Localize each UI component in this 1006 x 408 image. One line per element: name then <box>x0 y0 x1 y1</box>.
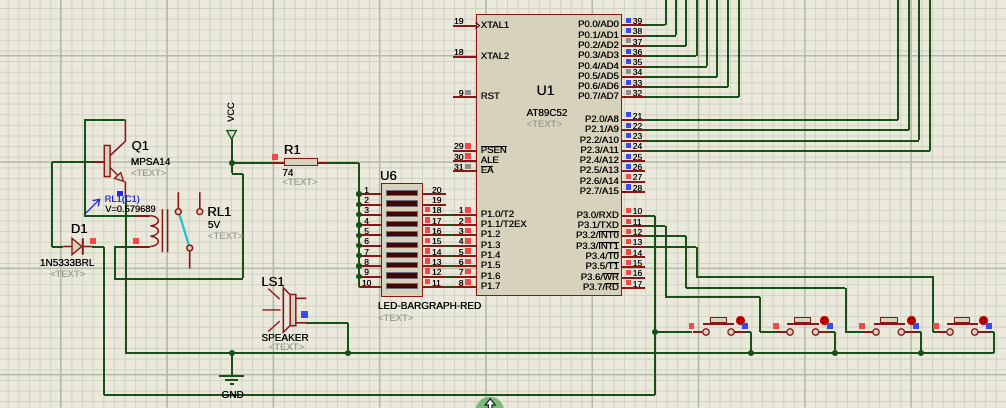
voltage probe arrow <box>80 193 105 219</box>
U1 pin 13 <box>622 246 645 248</box>
U6 left pin 1 <box>359 193 382 195</box>
junction dot U6 pin 9 <box>356 274 361 279</box>
U1 pin 32 <box>622 96 645 98</box>
U6 LED segment bar 10 <box>386 283 418 289</box>
wire net P0.3 <box>645 55 696 57</box>
wire: left loop vertical <box>84 120 86 216</box>
U6 right pin 16 <box>423 234 446 236</box>
wire: relay-right vertical to VCC <box>242 174 244 279</box>
button B4 feed wire <box>933 331 937 333</box>
U6 left pin 10 <box>359 286 382 288</box>
RL1 coil bottom pin <box>136 246 151 248</box>
U1 pin 27 <box>622 181 645 183</box>
junction dot U6 pin 6 <box>356 243 361 248</box>
R1 pin state square <box>272 154 278 160</box>
U1 pin 30 (ALE) <box>453 160 476 162</box>
R1 right pin <box>318 162 329 164</box>
D1 cathode state square <box>90 238 96 244</box>
U1 pin 39 <box>622 24 645 26</box>
U6 left pin 5 <box>359 234 382 236</box>
wire: ground bus horizontal <box>125 352 993 354</box>
U6 right pin 15 <box>423 245 446 247</box>
wire net P2.3 <box>645 150 930 152</box>
U6 left pin 9 <box>359 276 382 278</box>
LS1 state square <box>301 311 308 318</box>
wire net P2.0 <box>645 119 898 121</box>
button B3 output wire <box>917 331 921 333</box>
GND label <box>221 390 243 401</box>
wire net P3.0 to button 1 <box>645 215 655 217</box>
U6 left pin 6 <box>359 245 382 247</box>
U1 pin 35 <box>622 66 645 68</box>
junction dot button B1 output <box>748 350 754 356</box>
U6 reference label <box>380 168 397 183</box>
U6 LED segment bar 4 <box>386 221 418 227</box>
Q1 value label MPSA14 <box>131 157 170 168</box>
wire net P0.6 <box>645 86 728 88</box>
speaker LS1 symbol <box>258 283 310 337</box>
wire net P2.2 <box>645 140 919 142</box>
U1 pin 18 (XTAL2) <box>453 56 476 58</box>
U1 pin 11 <box>622 225 645 227</box>
U1 pin 33 <box>622 86 645 88</box>
R1 reference label <box>284 142 301 157</box>
wire: VCC jog vertical <box>231 163 233 174</box>
U1 pin 15 <box>622 266 645 268</box>
button B4 symbol <box>937 331 947 333</box>
power symbol VCC <box>224 128 240 141</box>
U1 pin 29 (<span class="ov">PSEN) <box>453 150 476 152</box>
diode D1 symbol <box>60 234 94 259</box>
wire net P0.0 <box>645 24 665 26</box>
U1 TEXT placeholder <box>527 119 562 130</box>
U6 right pin 11 <box>423 286 446 288</box>
wire net P0.2 <box>645 45 686 47</box>
U6 left pin 2 <box>359 204 382 206</box>
wire net P3.1 to button 2 <box>645 225 665 227</box>
U1 pin 5 (P1.4) <box>453 255 476 257</box>
junction dot button B2 output <box>832 350 838 356</box>
wire: bottom return horizontal <box>104 394 655 396</box>
wire: diode anode stub <box>52 246 64 248</box>
button B2 feed wire <box>760 331 777 333</box>
RL1 coil top pin <box>136 215 150 217</box>
junction dot VCC node <box>229 160 235 166</box>
junction dot ground tap <box>229 350 235 356</box>
Q1 reference label <box>132 138 149 153</box>
U1 pin 21 <box>622 119 645 121</box>
D1 reference label <box>71 221 88 236</box>
button B1 feed wire <box>655 331 693 333</box>
button B2 symbol <box>777 331 787 333</box>
wire: R1 to U6 column <box>328 162 359 164</box>
U1 pin 8 (P1.7) <box>453 286 476 288</box>
junction dot U6 pin 8 <box>356 263 361 268</box>
wire: base-diode vertical <box>51 162 53 247</box>
wire: coil bottom to corner <box>114 246 136 248</box>
resistor R1 body <box>284 158 317 166</box>
U6 LED segment bar 9 <box>386 272 418 278</box>
U1 pin 2 (P1.1/T2EX) <box>453 224 476 226</box>
wire: coil-bottom drop <box>114 247 116 279</box>
U1 pin 10 <box>622 215 645 217</box>
U6 left pin 8 <box>359 265 382 267</box>
button B1 output wire <box>746 331 751 333</box>
U6 LED segment bar 8 <box>386 262 418 268</box>
U6 value label LED-BARGRAPH-RED <box>378 301 481 312</box>
junction dot U6 pin 4 <box>356 222 361 227</box>
LED bargraph U6 body <box>381 183 422 296</box>
U6 LED segment bar 1 <box>386 190 418 196</box>
ground symbol <box>231 353 233 376</box>
transistor Q1 symbol <box>98 115 134 200</box>
wire: speaker drop vertical <box>347 323 349 353</box>
U1 pin 25 <box>622 160 645 162</box>
RL1 switch contacts and armature <box>170 188 210 273</box>
U1 reference label <box>537 82 555 98</box>
U1 pin 16 <box>622 277 645 279</box>
U6 right pin 14 <box>423 255 446 257</box>
R1 left pin <box>272 162 284 164</box>
wire: VCC to R1 <box>232 162 273 164</box>
RL1 reference label <box>207 204 231 219</box>
LS1 reference label <box>261 274 284 289</box>
U6 LED segment bar 3 <box>386 211 418 217</box>
U1 pin 7 (P1.6) <box>453 276 476 278</box>
junction dot U6 pin 1 <box>356 191 361 196</box>
U1 pin 38 <box>622 35 645 37</box>
U1 pin 26 <box>622 170 645 172</box>
wire: cathode drop vertical <box>103 247 105 395</box>
button B1 symbol <box>693 331 703 333</box>
junction dot button B3 output <box>918 350 924 356</box>
U6 LED segment bar 7 <box>386 252 418 258</box>
U6 right pin 17 <box>423 224 446 226</box>
U1 pin 31 (<span class="ov">EA) <box>453 170 476 172</box>
button B3 feed wire <box>845 331 863 333</box>
junction dot U6 pin 5 <box>356 233 361 238</box>
wire net P0.1 <box>645 35 676 37</box>
wire net P0.4 <box>645 66 707 68</box>
U1 pin 23 <box>622 140 645 142</box>
wire: emitter to coil horizontal <box>84 215 136 217</box>
U1 pin 22 <box>622 129 645 131</box>
wire net P0.7 <box>645 96 739 98</box>
D1 TEXT placeholder <box>50 269 85 280</box>
wire net P3.3 to button 4 <box>645 246 696 248</box>
U6 right pin 13 <box>423 265 446 267</box>
U1 pin 4 (P1.3) <box>453 245 476 247</box>
R1 value 74 <box>282 168 293 179</box>
U1 pin 17 <box>622 287 645 289</box>
RL1 value 5V <box>208 220 220 231</box>
U1 pin 28 <box>622 191 645 193</box>
wire: collector top horizontal <box>84 119 125 121</box>
wire: relay underpass horizontal <box>114 278 242 280</box>
probe voltage V=0.579689 <box>105 204 155 214</box>
RL1 TEXT placeholder <box>208 231 243 242</box>
U6 right pin 20 <box>423 193 446 195</box>
wire: U6 input column vertical <box>358 163 360 287</box>
probe attachment square <box>117 191 123 197</box>
wire: speaker pin horizontal <box>306 322 348 324</box>
U6 LED segment bar 2 <box>386 200 418 206</box>
U1 pin 37 <box>622 45 645 47</box>
R1 TEXT placeholder <box>282 177 317 188</box>
U6 LED segment bar 5 <box>386 231 418 237</box>
U6 right pin 19 <box>423 204 446 206</box>
U1 pin 34 <box>622 76 645 78</box>
U1 pin 36 <box>622 55 645 57</box>
origin marker green arrow <box>475 396 505 408</box>
junction dot U6 pin 3 <box>356 212 361 217</box>
U1 pin 1 (P1.0/T2) <box>453 214 476 216</box>
U1 pin 14 <box>622 256 645 258</box>
RL1 coil pin state square <box>133 238 139 244</box>
wire: base horizontal <box>52 161 94 163</box>
U6 LED segment bar 6 <box>386 242 418 248</box>
wire net P0.5 <box>645 76 717 78</box>
wire: diode cathode to corner <box>92 246 104 248</box>
wire: VCC jog horizontal <box>232 173 243 175</box>
junction dot U6 pin 2 <box>356 202 361 207</box>
LS1 value label SPEAKER <box>261 333 308 344</box>
U1 pin 9 (RST) <box>453 96 476 98</box>
D1 value label 1N5333BRL <box>40 258 94 269</box>
probe name RL1(C1) <box>105 194 140 204</box>
LS1 TEXT placeholder <box>269 342 304 353</box>
junction dot button1 feed <box>652 329 658 335</box>
U1 value label AT89C52 <box>527 108 568 119</box>
U6 right pin 12 <box>423 276 446 278</box>
U1 pin 19 (XTAL1) <box>453 25 476 27</box>
U6 left pin 4 <box>359 224 382 226</box>
button B2 output wire <box>830 331 835 333</box>
Q1 TEXT placeholder <box>131 168 166 179</box>
button B3 symbol <box>863 331 873 333</box>
XTAL1 clock input chevron <box>475 22 483 30</box>
wire: emitter pin link <box>125 195 127 216</box>
wire net P3.2 to button 3 <box>645 235 686 237</box>
wire: emitter down to ground bus <box>125 216 127 353</box>
wire net P2.1 <box>645 129 909 131</box>
U1 pin 3 (P1.2) <box>453 234 476 236</box>
U6 right pin 18 <box>423 214 446 216</box>
U1 pin 6 (P1.5) <box>453 265 476 267</box>
junction dot speaker <box>345 350 351 356</box>
U6 TEXT placeholder <box>378 313 413 324</box>
Q1 base pin <box>93 161 104 163</box>
relay RL1 coil <box>130 190 175 260</box>
U6 left pin 7 <box>359 255 382 257</box>
U1 pin 24 <box>622 150 645 152</box>
button B4 output wire <box>989 331 993 333</box>
junction dot U6 pin 7 <box>356 253 361 258</box>
U6 left pin 3 <box>359 214 382 216</box>
op-amp U1 body (AT89C52 microcontroller) <box>476 14 622 296</box>
U1 pin 12 <box>622 235 645 237</box>
